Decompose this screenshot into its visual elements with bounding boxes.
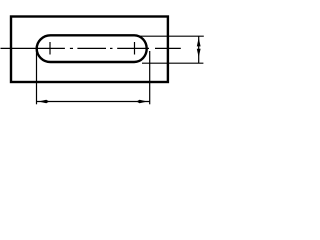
bottom dimension line <box>37 101 150 103</box>
right dim lower arrowhead <box>197 49 201 58</box>
slot (obround hole) <box>37 35 147 62</box>
bottom left arrowhead <box>38 100 49 104</box>
horizontal centerline (dash-dot) <box>1 47 181 49</box>
top extension line (slot width dim) <box>140 35 204 37</box>
right arc center mark <box>134 42 136 55</box>
right dim upper arrowhead <box>197 38 201 47</box>
left arc center mark <box>49 42 51 55</box>
bottom extension line (slot width dim) <box>142 62 203 64</box>
left extension line (slot length dim) <box>36 47 38 105</box>
plate outline (rectangle) <box>11 17 168 83</box>
right extension line (slot length dim) <box>149 51 151 104</box>
bottom right arrowhead <box>137 100 148 104</box>
right dimension line <box>198 36 200 63</box>
